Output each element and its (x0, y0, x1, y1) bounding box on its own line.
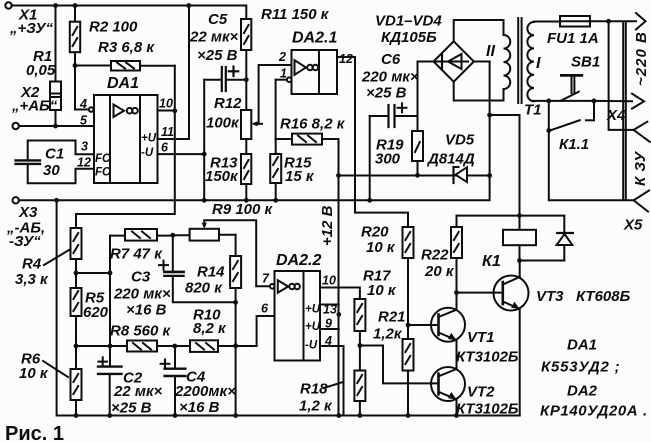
svg-text:К1: К1 (482, 253, 501, 270)
svg-text:220 мк×: 220 мк× (113, 286, 171, 303)
arrow mains bottom (632, 94, 644, 109)
wire DA2.1 pin12 output (337, 57, 408, 227)
resistor R2 (70, 6, 80, 66)
svg-text:1: 1 (280, 67, 287, 81)
resistor R19 (412, 62, 423, 175)
resistor R20 (403, 227, 414, 339)
svg-text:C6: C6 (381, 51, 401, 68)
wire DA1 pin10 (158, 110, 175, 112)
wire R7 left riser (109, 236, 111, 367)
capacitor C3 (159, 235, 236, 302)
svg-text:VT1: VT1 (467, 329, 495, 346)
svg-text:FU1 1А: FU1 1А (547, 30, 599, 47)
svg-text:10 к: 10 к (19, 365, 49, 382)
capacitor C5 (204, 67, 246, 91)
svg-text:1,2 к: 1,2 к (299, 398, 333, 415)
svg-text:КР140УД20А .: КР140УД20А . (540, 403, 648, 420)
svg-text:R21: R21 (378, 309, 406, 326)
svg-text:22 мк×: 22 мк× (113, 383, 163, 400)
chevron K ZU out (634, 122, 650, 142)
svg-text:VT2: VT2 (467, 384, 495, 401)
resistor R7 (110, 229, 173, 241)
svg-text:620: 620 (83, 304, 109, 321)
svg-text:DA1: DA1 (567, 337, 597, 354)
relay contact K1.1 (549, 101, 594, 131)
terminal X2 (13, 123, 19, 129)
callout line R4 (44, 250, 69, 265)
wire DA2.2 pin9 (320, 328, 339, 330)
resistor R8 (76, 341, 190, 352)
svg-text:КД105Б: КД105Б (381, 29, 437, 46)
svg-text:30: 30 (43, 162, 60, 179)
wire K1.1 to X5 out (549, 131, 634, 201)
svg-text:FC: FC (95, 167, 111, 179)
svg-text:~220 В: ~220 В (633, 31, 650, 86)
terminal X3 (13, 197, 19, 203)
resistor R18 (354, 371, 365, 416)
resistor R12 potentiometer (241, 110, 262, 139)
resistor R22 (451, 216, 462, 293)
wire DA1 pin11 supply (158, 6, 190, 140)
zener diode VD5 (454, 167, 468, 183)
svg-text:8,2 к: 8,2 к (193, 320, 227, 337)
svg-text:R4: R4 (22, 256, 42, 273)
svg-text:R16 8,2 к: R16 8,2 к (280, 116, 346, 133)
svg-text:6: 6 (161, 141, 169, 155)
wire left bus and bottom bus (57, 200, 520, 415)
svg-text:2200мк×: 2200мк× (174, 383, 236, 400)
bridge rectifier VD1-VD4 (434, 41, 474, 81)
svg-text:DA2.1: DA2.1 (292, 30, 337, 47)
capacitor C2 (98, 357, 122, 415)
svg-text:КТ3102Б: КТ3102Б (456, 401, 519, 418)
svg-text:22 мк×: 22 мк× (189, 29, 239, 46)
svg-text:15 к: 15 к (285, 168, 315, 185)
wire DA2.2 pin13 (320, 304, 339, 306)
resistor R17 (354, 299, 365, 371)
arrow mains top (636, 13, 646, 30)
svg-text:11: 11 (161, 125, 174, 139)
svg-text:+U: +U (305, 321, 321, 333)
svg-text:VT3 КТ608Б: VT3 КТ608Б (536, 288, 631, 305)
svg-text:×25 В: ×25 В (111, 400, 152, 417)
wire bridge top to winding II (454, 20, 504, 41)
svg-text:„+ЗУ“: „+ЗУ“ (9, 20, 53, 37)
transistor VT1 (431, 293, 465, 369)
svg-text:×25 В: ×25 В (366, 85, 407, 102)
svg-text:R3 6,8 к: R3 6,8 к (98, 39, 155, 56)
wire DA2.2 pin4 (320, 346, 344, 416)
wire K1 top rail (457, 215, 565, 217)
svg-text:+U: +U (305, 304, 321, 316)
resistor R3 (75, 61, 175, 71)
svg-text:300: 300 (375, 151, 401, 168)
svg-text:„+АБ“: „+АБ“ (11, 98, 58, 115)
svg-text:R22: R22 (421, 247, 449, 264)
wire R11 to R12 (245, 50, 247, 110)
wire bridge right output riser (474, 61, 490, 63)
svg-text:9: 9 (325, 317, 332, 331)
wire R14 bottom riser to bus (235, 302, 237, 415)
capacitor C4 (161, 346, 186, 416)
svg-text:R7 47 к: R7 47 к (110, 246, 163, 263)
wire X4 down riser (609, 21, 634, 130)
wire R13 bottom (245, 184, 247, 200)
wire bridge bottom to winding II (454, 82, 504, 101)
svg-text:X5: X5 (623, 217, 643, 234)
resistor R13 (241, 154, 251, 184)
pushbutton SB1 (549, 75, 594, 101)
wire X2 to DA1 pin5 (19, 125, 94, 127)
op-amp DA2.1 (292, 50, 338, 94)
svg-text:10: 10 (159, 97, 173, 111)
svg-text:R9 100 к: R9 100 к (212, 201, 274, 218)
svg-text:SB1: SB1 (571, 54, 600, 71)
op-amp DA2.2 (275, 271, 321, 361)
wire bridge left output (418, 61, 434, 63)
svg-text:C5: C5 (208, 11, 228, 28)
svg-text:C3: C3 (131, 269, 151, 286)
svg-text:12: 12 (339, 52, 353, 66)
wire DA1 pin4 (75, 66, 93, 112)
wire DA2.2 pin10 to R17 (320, 288, 360, 300)
wire R12 to R13 (245, 139, 247, 154)
svg-text:R11 150 к: R11 150 к (261, 6, 330, 23)
svg-text:T1: T1 (524, 102, 542, 119)
svg-text:820 к: 820 к (185, 280, 223, 297)
resistor R15 (270, 139, 281, 200)
svg-text:×16 В: ×16 В (126, 302, 167, 319)
svg-text:20 к: 20 к (424, 263, 455, 280)
transformer winding II (504, 35, 511, 89)
svg-text:+U: +U (141, 133, 157, 145)
svg-text:X4: X4 (606, 107, 626, 124)
wire R17 R18 junction to VT2 base (360, 346, 439, 384)
svg-text:R18: R18 (300, 381, 328, 398)
resistor R6 (71, 369, 82, 416)
svg-text:К ЗУ: К ЗУ (632, 150, 649, 186)
svg-text:×25 В: ×25 В (197, 47, 238, 64)
resistor R9 potentiometer (173, 221, 236, 241)
wire DA1 pin6 supply (158, 153, 205, 155)
capacitor C6 (370, 103, 418, 127)
wire +12V bus (339, 175, 490, 177)
svg-text:10 к: 10 к (366, 239, 396, 256)
svg-text:К553УД2 ;: К553УД2 ; (541, 359, 620, 376)
svg-text:7: 7 (262, 272, 270, 286)
svg-text:6: 6 (261, 302, 269, 316)
svg-text:DA2.2: DA2.2 (276, 252, 321, 269)
wire DA2.2 pin6 (257, 316, 275, 346)
wire C6 left riser (369, 116, 371, 200)
svg-text:-U: -U (305, 340, 318, 352)
resistor R14 (230, 235, 241, 303)
svg-text:4: 4 (79, 97, 87, 111)
svg-text:I: I (536, 55, 541, 72)
svg-text:VD5: VD5 (445, 132, 475, 149)
wire ground bus (19, 62, 490, 201)
svg-text:R2 100: R2 100 (89, 19, 138, 36)
svg-text:R8 560 к: R8 560 к (110, 323, 172, 340)
svg-text:150к: 150к (205, 168, 239, 185)
resistor R21 (403, 339, 414, 416)
transformer T1 core (518, 18, 521, 103)
svg-text:×16 В: ×16 В (179, 399, 220, 416)
resistor R5 (71, 273, 82, 369)
terminal X1 (5, 2, 11, 8)
svg-text:R12: R12 (214, 95, 242, 112)
callout line R6 (43, 361, 68, 377)
svg-text:КТ3102Б: КТ3102Б (456, 349, 519, 366)
capacitor C1 (16, 141, 94, 184)
svg-text:II: II (486, 43, 495, 60)
svg-text:4: 4 (324, 334, 332, 348)
wire R9 wiper to DA2.2 pin7 (204, 220, 274, 288)
connector X4 lines (623, 22, 626, 200)
svg-text:Д814Д: Д814Д (426, 151, 475, 168)
svg-text:R14: R14 (197, 264, 225, 281)
svg-text:DA1: DA1 (107, 75, 139, 92)
op-amp DA1 (94, 95, 158, 183)
resistor R1 (50, 6, 61, 127)
resistor R4 (71, 228, 82, 273)
svg-text:FC: FC (95, 153, 111, 165)
diode VD6 (520, 216, 573, 261)
wire R4 R5 junction (76, 272, 110, 274)
svg-text:1,2к: 1,2к (373, 326, 403, 343)
svg-text:3: 3 (81, 140, 88, 154)
svg-text:12: 12 (77, 156, 91, 170)
svg-text:100к: 100к (206, 115, 240, 132)
svg-text:13: 13 (323, 303, 337, 317)
svg-text:0,05: 0,05 (26, 62, 56, 79)
wire R20 R21 junction to VT1 base (408, 324, 439, 326)
svg-text:220 мк×: 220 мк× (361, 69, 419, 86)
wire top rail (12, 6, 247, 20)
wire R3 feedback to R4 (76, 66, 175, 228)
svg-text:C1: C1 (45, 146, 64, 163)
svg-text:Рис. 1: Рис. 1 (5, 423, 64, 442)
relay coil K1 (503, 216, 536, 261)
svg-text:10: 10 (322, 274, 336, 288)
resistor R10 (190, 340, 257, 352)
wire winding I top to fuse (534, 21, 560, 23)
wire +12V vertical line (338, 139, 340, 416)
svg-text:К1.1: К1.1 (559, 136, 589, 153)
svg-text:DA2: DA2 (567, 383, 598, 400)
wire SB1 right to X4 (594, 100, 632, 102)
resistor R16 (276, 134, 339, 145)
resistor R11 (241, 19, 251, 50)
svg-text:2: 2 (278, 50, 286, 64)
svg-text:5: 5 (80, 114, 88, 128)
wire bridge DC to K1 feed (490, 115, 520, 216)
svg-text:X3: X3 (18, 204, 38, 221)
svg-text:10 к: 10 к (367, 282, 397, 299)
wire C5 left riser (203, 80, 205, 201)
callout line R18 (324, 382, 343, 388)
fuse FU1 (560, 16, 590, 27)
transistor VT3 (457, 261, 529, 416)
chevron X5 out (634, 191, 649, 212)
svg-text:R20: R20 (361, 224, 389, 241)
svg-text:-ЗУ“: -ЗУ“ (9, 233, 41, 250)
svg-text:+12 В: +12 В (319, 205, 336, 246)
svg-text:VD1–VD4: VD1–VD4 (375, 13, 442, 30)
wire fuse to X4 (590, 20, 636, 22)
wire DA2.1 pin1 (276, 77, 292, 139)
wire DA2.1 pin2 to R12 wiper (259, 65, 292, 124)
wire winding I bottom (534, 100, 549, 102)
svg-text:-U: -U (141, 147, 154, 159)
transistor VT2 (431, 367, 465, 416)
transformer winding I (527, 22, 534, 101)
svg-text:3,3 к: 3,3 к (15, 271, 49, 288)
